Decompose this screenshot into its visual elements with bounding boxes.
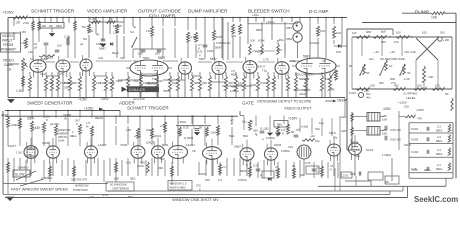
svg-text:10K: 10K [431,16,438,20]
svg-text:V1a: V1a [133,59,139,63]
svg-text:V1b: V1b [120,56,126,60]
svg-text:12K: 12K [126,128,131,132]
svg-text:5K: 5K [366,71,370,75]
svg-text:5687: 5687 [234,145,241,149]
svg-text:100K: 100K [258,39,265,43]
svg-text:V2: V2 [30,57,34,61]
svg-text:K: K [246,163,248,167]
svg-text:+100: +100 [443,38,450,42]
svg-text:WIDTH MEG: WIDTH MEG [170,186,186,190]
svg-text:1MEG: 1MEG [11,123,19,127]
svg-text:K: K [76,122,78,126]
svg-text:360: 360 [379,81,384,85]
svg-text:470K: 470K [1,114,9,118]
svg-text:OK RECORD SIZE: OK RECORD SIZE [380,57,405,61]
svg-text:K: K [330,168,332,172]
svg-text:12AU7: 12AU7 [186,143,195,147]
svg-text:+250v: +250v [178,120,187,124]
svg-text:MEG: MEG [436,139,442,143]
svg-text:47K: 47K [417,117,422,121]
svg-text:PREAMP: PREAMP [1,48,16,52]
svg-text:1.8K: 1.8K [20,30,26,34]
svg-text:3K: 3K [407,71,411,75]
svg-text:-105V: -105V [416,108,424,112]
svg-text:1K: 1K [16,21,21,25]
svg-text:2.2: 2.2 [218,178,222,182]
svg-text:100: 100 [138,52,143,56]
svg-text:0.05 1W: 0.05 1W [390,128,401,132]
svg-text:READ: READ [95,116,103,120]
svg-text:380 500 475: 380 500 475 [71,178,87,182]
svg-text:6.4µ6: 6.4µ6 [301,125,309,129]
svg-text:GATE: GATE [242,101,254,106]
svg-text:0.5: 0.5 [231,69,235,73]
svg-text:+10: +10 [374,50,379,54]
svg-text:5687: 5687 [210,57,217,61]
svg-text:22K: 22K [202,81,207,85]
svg-text:0.003: 0.003 [411,138,419,142]
svg-text:SWEEP GENERATOR: SWEEP GENERATOR [27,101,73,106]
svg-text:180Ω: 180Ω [56,24,62,28]
svg-text:0.25: 0.25 [305,161,311,165]
svg-text:470Ω: 470Ω [120,143,128,147]
svg-text:POSITION: POSITION [73,188,88,192]
svg-text:10K: 10K [250,39,255,43]
svg-text:1N51A: 1N51A [238,178,247,182]
svg-text:K: K [282,132,284,136]
svg-text:OB7: OB7 [286,26,292,30]
svg-text:1N55A: 1N55A [216,41,225,45]
svg-text:Q.0003: Q.0003 [184,136,194,140]
svg-text:S8: S8 [385,180,389,184]
svg-text:VIDEO OUTPUT: VIDEO OUTPUT [284,107,312,111]
svg-text:1N34A: 1N34A [337,99,348,103]
svg-text:12AU7: 12AU7 [98,143,107,147]
svg-text:330K: 330K [108,81,115,85]
svg-text:5687: 5687 [158,56,166,60]
svg-text:1N34A 47K: 1N34A 47K [129,88,146,92]
svg-text:680: 680 [277,123,282,127]
svg-text:47K: 47K [231,34,236,38]
svg-text:+105V: +105V [78,98,88,102]
svg-text:SLOW: SLOW [15,173,24,177]
svg-text:1N34: 1N34 [349,91,356,95]
svg-text:5687: 5687 [143,56,150,60]
svg-text:~105V: ~105V [100,97,109,101]
svg-text:S9: S9 [300,173,304,177]
svg-text:MEG: MEG [424,168,431,172]
svg-text:100K: 100K [58,139,65,143]
svg-text:22K: 22K [341,115,347,119]
svg-text:+150u: +150u [266,20,275,24]
svg-text:DUMP: DUMP [415,10,429,15]
svg-text:V2a: V2a [98,56,104,60]
svg-text:680A: 680A [240,169,247,173]
svg-text:350K: 350K [163,89,170,93]
svg-text:INPUT: INPUT [2,39,13,43]
svg-text:100: 100 [435,84,440,88]
svg-text:SENSE: SENSE [299,77,310,81]
svg-text:V4: V4 [322,59,326,63]
svg-text:100: 100 [422,31,427,35]
svg-text:V11a: V11a [352,140,359,144]
svg-text:V3: V3 [60,72,64,76]
svg-text:100: 100 [155,52,160,56]
svg-text:1 MEG: 1 MEG [382,153,392,157]
svg-text:4.43K: 4.43K [42,141,50,145]
svg-text:µF: µF [34,46,38,50]
svg-text:510: 510 [205,178,210,182]
svg-text:1N55A: 1N55A [230,89,239,93]
svg-text:µ 20: µ 20 [88,195,94,199]
svg-text:V11: V11 [355,154,360,158]
svg-text:330K: 330K [27,117,35,121]
svg-text:SCHMITT TRIGGER: SCHMITT TRIGGER [127,106,169,111]
svg-text:6AL5: 6AL5 [366,148,374,152]
svg-text:Q001: Q001 [154,134,161,138]
svg-text:5687: 5687 [99,47,106,51]
svg-text:100: 100 [440,31,445,35]
svg-text:10u: 10u [369,57,374,61]
svg-text:1K: 1K [7,68,12,72]
svg-text:LEVEL: LEVEL [406,96,416,100]
svg-text:330K: 330K [116,79,123,83]
svg-text:0.25: 0.25 [412,168,418,172]
svg-text:12AT7: 12AT7 [44,56,53,60]
svg-text:JACK: JACK [299,92,306,96]
svg-text:OB2: OB2 [286,37,292,41]
svg-text:100: 100 [336,31,341,35]
svg-text:50Ω: 50Ω [229,134,234,138]
svg-text:+105V: +105V [2,10,14,15]
svg-text:S1b: S1b [315,127,321,131]
svg-text:50µA: 50µA [112,51,119,55]
svg-text:5001: 5001 [162,143,169,147]
svg-text:FROM: FROM [3,43,13,47]
svg-text:100: 100 [336,50,341,54]
svg-text:IN: IN [64,117,67,121]
svg-text:1.2K: 1.2K [16,89,23,93]
svg-text:VIDEO: VIDEO [3,59,14,63]
svg-text:220K: 220K [199,172,206,176]
svg-text:MEG: MEG [436,167,442,171]
svg-text:16H: 16H [382,118,387,122]
svg-text:S1c: S1c [242,120,248,124]
svg-text:5K: 5K [445,92,449,96]
svg-text:K: K [46,118,48,122]
svg-text:40u: 40u [366,96,371,100]
svg-text:160: 160 [49,24,54,28]
svg-text:+150V: +150V [288,117,298,121]
svg-text:0.002: 0.002 [411,127,419,131]
svg-text:0.05 1W: 0.05 1W [390,138,401,142]
svg-text:100: 100 [320,29,325,33]
svg-text:100: 100 [57,44,62,48]
svg-text:5687: 5687 [303,55,311,59]
svg-text:-105V: -105V [382,107,392,111]
svg-text:270: 270 [394,40,399,44]
svg-text:WINDOW: WINDOW [75,184,89,188]
svg-text:16H: 16H [382,132,387,136]
svg-text:100K: 100K [148,81,155,85]
svg-text:100: 100 [417,84,422,88]
svg-text:S4: S4 [130,30,134,34]
svg-text:33K: 33K [158,166,163,170]
svg-text:100: 100 [396,31,401,35]
svg-text:180: 180 [42,24,47,28]
svg-text:6AL5: 6AL5 [329,131,336,135]
svg-text:1N55A: 1N55A [266,136,275,140]
svg-text:12AT7: 12AT7 [8,144,17,148]
svg-text:33K: 33K [64,86,69,90]
svg-text:+50: +50 [364,89,369,93]
svg-text:V10: V10 [288,145,294,149]
svg-text:DUMP AMPLIFIER: DUMP AMPLIFIER [188,9,228,14]
svg-text:6AN6: 6AN6 [274,143,282,147]
svg-text:K: K [231,122,233,126]
svg-text:V9: V9 [192,149,196,153]
svg-text:50: 50 [291,130,295,134]
svg-text:Va: Va [334,136,338,140]
svg-text:SCHMITT TRIGGER: SCHMITT TRIGGER [31,9,75,14]
svg-text:CENTERING: CENTERING [112,187,130,191]
svg-text:10K: 10K [211,131,216,135]
svg-text:5687: 5687 [215,46,222,50]
svg-text:1N55A: 1N55A [64,81,73,85]
svg-text:µH: µH [296,128,300,132]
svg-text:VIDEO: VIDEO [2,34,13,38]
svg-text:0.05: 0.05 [216,35,222,39]
svg-text:~95V: ~95V [126,195,133,199]
svg-text:0.25: 0.25 [343,174,349,178]
svg-text:10µ: 10µ [315,139,320,143]
svg-text:100: 100 [370,84,375,88]
svg-text:MEG: MEG [436,152,442,156]
svg-text:400: 400 [394,84,399,88]
svg-text:1N55A: 1N55A [281,149,290,153]
svg-text:10K: 10K [100,81,105,85]
svg-text:5K: 5K [199,126,203,130]
svg-text:33: 33 [228,81,232,85]
svg-text:T1g: T1g [262,69,267,73]
svg-text:MEG: MEG [436,128,442,132]
svg-text:+90: +90 [28,50,33,54]
svg-text:9µ8: 9µ8 [381,30,386,34]
svg-text:(2AU7: (2AU7 [146,141,155,145]
svg-text:+105v: +105v [255,50,264,54]
svg-text:10µ: 10µ [319,121,324,125]
svg-text:SeekIC.com: SeekIC.com [414,195,458,204]
svg-text:0.25: 0.25 [350,172,356,176]
svg-text:4.7K: 4.7K [102,193,108,197]
svg-text:22K: 22K [341,129,347,133]
svg-text:V1a: V1a [133,79,138,83]
svg-text:2.2: 2.2 [222,165,226,169]
svg-text:+105V: +105V [84,107,94,111]
svg-text:68M: 68M [256,28,262,32]
svg-text:13K: 13K [428,75,434,79]
svg-text:1N55A: 1N55A [96,42,106,46]
svg-text:O-10Ω: O-10Ω [260,127,269,131]
svg-text:0.5Ω: 0.5Ω [250,83,257,87]
svg-text:0.002: 0.002 [411,150,419,154]
svg-text:VIDEO AMPLIFIER: VIDEO AMPLIFIER [87,9,128,14]
svg-text:K: K [198,47,200,51]
svg-text:1.8K: 1.8K [90,17,97,21]
svg-text:µµ: µµ [96,32,100,36]
svg-text:+50 +100: +50 +100 [404,50,416,54]
svg-text:+20: +20 [390,50,395,54]
svg-text:Ω50: Ω50 [366,30,372,34]
svg-text:4.7K: 4.7K [190,35,196,39]
svg-text:58Ω: 58Ω [130,177,136,181]
svg-text:6AL5: 6AL5 [404,143,411,147]
svg-text:2.2K: 2.2K [404,77,410,81]
svg-text:1.8K: 1.8K [113,31,120,35]
svg-text:µ10: µ10 [310,134,315,138]
svg-text:10K: 10K [146,128,151,132]
svg-text:1.5K: 1.5K [16,151,22,155]
svg-text:0.25: 0.25 [183,126,189,130]
svg-text:FAST WINDOW SWEEP SPEED: FAST WINDOW SWEEP SPEED [11,187,68,192]
svg-text:µ6.25A: µ6.25A [50,122,59,126]
svg-text:1K: 1K [389,64,393,68]
svg-text:µmd S10: µmd S10 [133,97,145,101]
svg-text:D-C AMP: D-C AMP [309,9,329,14]
svg-text:2.7K: 2.7K [263,58,269,62]
svg-text:µF: µF [80,42,84,46]
svg-text:50K: 50K [140,161,145,165]
svg-text:OSTEGRAM OUTPUT TO SCOPE: OSTEGRAM OUTPUT TO SCOPE [257,100,312,104]
svg-text:+45u: +45u [252,13,259,17]
svg-text:5µ: 5µ [133,25,137,29]
svg-text:56K: 56K [243,134,248,138]
svg-text:6.8: 6.8 [238,83,242,87]
svg-text:21K: 21K [404,105,409,109]
svg-text:2.5K: 2.5K [23,21,29,25]
svg-text:100K: 100K [207,49,214,53]
svg-text:MEG: MEG [70,134,77,138]
svg-text:50: 50 [90,29,94,33]
svg-text:C,: C, [341,174,344,178]
svg-text:V1a: V1a [40,72,45,76]
svg-text:100: 100 [352,31,357,35]
svg-text:50K: 50K [114,177,119,181]
